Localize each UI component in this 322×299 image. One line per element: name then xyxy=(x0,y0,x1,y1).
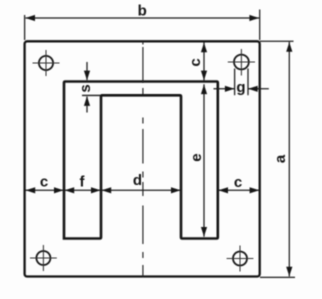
hole bottom-left xyxy=(30,245,57,271)
vertical centerline xyxy=(142,42,144,278)
hole top-right xyxy=(228,49,255,76)
plate outline (square flange) xyxy=(25,41,260,276)
dimension f (leg width, bottom row) xyxy=(64,173,100,193)
svg-text:b: b xyxy=(138,3,147,20)
dimension s (yoke thickness) xyxy=(77,62,101,113)
svg-text:a: a xyxy=(272,154,289,163)
svg-text:c: c xyxy=(187,58,204,66)
dimension a (overall height, right) xyxy=(260,41,295,277)
svg-text:g: g xyxy=(236,79,245,96)
svg-text:c: c xyxy=(40,173,48,190)
hole top-left xyxy=(33,50,60,76)
dimension d (window width, bottom row) xyxy=(101,172,180,193)
svg-text:s: s xyxy=(77,84,94,92)
dimension e (window depth) xyxy=(188,84,207,237)
dimension b (overall width, top) xyxy=(25,3,260,40)
U-shaped cutout (core window) xyxy=(64,82,218,239)
dimension c (top, plate edge to cutout) xyxy=(187,43,207,81)
dimension c (right margin, bottom row) xyxy=(218,174,259,193)
dimension c (left margin, bottom row) xyxy=(25,173,63,193)
dimension g (hole diameter) xyxy=(214,69,269,97)
hole bottom-right xyxy=(227,246,254,272)
svg-text:e: e xyxy=(188,153,205,161)
svg-text:d: d xyxy=(133,172,142,189)
svg-text:c: c xyxy=(234,174,242,191)
